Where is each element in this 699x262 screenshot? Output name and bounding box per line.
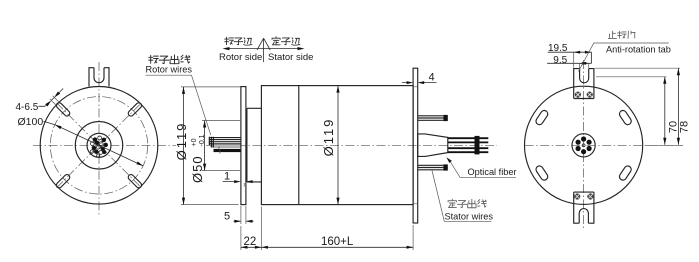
right view bottom tab	[574, 192, 594, 223]
dim 160+L: extension line right	[412, 225, 414, 250]
svg-text:5: 5	[224, 211, 230, 223]
svg-text:4-6.5: 4-6.5	[16, 102, 39, 113]
dim Ø100 arrows	[55, 125, 62, 130]
dim 78 line	[677, 68, 679, 145]
dim 4-6.5 arrows	[45, 100, 51, 106]
svg-text:Ø50: Ø50	[190, 155, 205, 183]
right view slot 146deg	[535, 109, 549, 126]
right flange plate	[413, 68, 418, 223]
bottom tab screws	[574, 193, 593, 199]
dim 160+L: line	[261, 246, 413, 248]
svg-text:78: 78	[679, 121, 691, 133]
dim 19.5 arrows	[574, 51, 581, 54]
left view center lines	[33, 62, 176, 216]
dim 4-6.5 leader	[39, 89, 64, 107]
svg-text:4: 4	[429, 72, 435, 84]
dim Ø119 left: line	[183, 87, 185, 205]
middle center line	[206, 144, 497, 146]
dim Ø119 left: extension lines	[181, 87, 241, 205]
dim 22: line	[241, 246, 262, 248]
stator top rod end cap	[443, 115, 447, 121]
left view slot 315deg	[127, 173, 143, 189]
body inner vertical line	[298, 86, 300, 205]
label 转子出线	[149, 55, 190, 64]
svg-text:9.5: 9.5	[553, 55, 567, 66]
dim 9.5 line	[547, 52, 591, 63]
left view outer circle Ø119	[40, 87, 158, 205]
svg-text:22: 22	[244, 236, 257, 248]
svg-text:Anti-rotation tab: Anti-rotation tab	[606, 45, 671, 55]
top tab U-slot	[580, 69, 589, 83]
label 止转片	[608, 31, 635, 38]
rotor wires bundle	[210, 138, 241, 144]
label 转子边	[225, 37, 252, 45]
right view outer circle	[525, 86, 643, 204]
dim 22: extension lines	[241, 207, 262, 251]
right view slot 326deg	[618, 165, 632, 182]
dim 5: arrows	[234, 220, 254, 222]
svg-text:Stator wires: Stator wires	[445, 212, 494, 222]
svg-text:Ø119: Ø119	[321, 118, 336, 157]
bottom tab U-slot	[579, 209, 588, 224]
left view tab U-slot	[94, 68, 104, 83]
stator side arrow (right)	[264, 48, 302, 50]
svg-text:Rotor side: Rotor side	[219, 52, 262, 63]
right view connector circle	[572, 134, 595, 157]
dim 70/78 extension lines	[595, 68, 683, 145]
stator bottom rod	[418, 165, 444, 170]
left view slot 225deg	[55, 173, 71, 189]
divider vertical with up arrow	[263, 39, 265, 62]
left flange plate	[241, 87, 246, 205]
left view top tab	[89, 68, 109, 87]
svg-text:160+L: 160+L	[321, 236, 354, 248]
optical fiber connector	[418, 134, 448, 157]
stator wires leader	[432, 171, 492, 222]
dim 4-6.5 slot side extensions	[50, 96, 59, 105]
connector pins	[576, 136, 592, 154]
dim 1: lines and arrows	[223, 181, 253, 183]
rotor hub	[247, 108, 262, 182]
right view center lines	[525, 60, 683, 228]
stator bottom rod end cap	[443, 164, 447, 170]
rotor wires thick black wire	[214, 149, 241, 152]
rotor wires gray band	[212, 144, 241, 147]
svg-text:Ø100: Ø100	[18, 116, 44, 128]
stator top rod	[418, 116, 444, 121]
svg-text:Ø119: Ø119	[174, 122, 189, 161]
svg-text:Stator side: Stator side	[268, 52, 313, 63]
dim 5: extension lines	[241, 206, 246, 224]
right flange disc edges	[413, 87, 418, 204]
dim Ø50: line	[204, 121, 206, 171]
left view diagonal center lines	[57, 103, 142, 188]
left view bolt circle Ø100 (dash-dot)	[50, 97, 147, 194]
wire break squiggle	[219, 147, 220, 154]
label 定子出线	[448, 199, 486, 208]
label 定子边	[272, 37, 300, 45]
dim Ø119 body: line	[337, 86, 339, 204]
left view boss circle	[75, 122, 122, 169]
svg-text:Rotor wires: Rotor wires	[146, 65, 193, 75]
right view slot 33deg	[618, 109, 632, 126]
fiber lines	[448, 138, 489, 152]
left view slot 135deg	[55, 102, 71, 118]
rotor wires end ticks	[209, 137, 213, 148]
main body	[261, 86, 413, 205]
svg-text:+0: +0	[191, 138, 198, 146]
dim 19.5 line	[548, 51, 592, 53]
rotor side arrow (left)	[225, 48, 264, 50]
dim 70 line	[664, 77, 666, 145]
right view top tab	[574, 69, 594, 99]
left view wire cluster	[90, 136, 107, 157]
svg-text:Optical fiber: Optical fiber	[468, 167, 517, 177]
right view slot 213deg	[535, 165, 549, 182]
dim Ø100 leader + diameter line	[44, 121, 144, 166]
left view wire-bundle circle	[87, 133, 111, 157]
label Optical fiber leader	[450, 161, 517, 178]
svg-text:1: 1	[224, 171, 230, 183]
dim extension verticals at tab	[574, 52, 592, 68]
anti-rotation tab leader	[578, 43, 668, 72]
svg-text:-0.1: -0.1	[199, 134, 206, 146]
dim 9.5 arrows	[580, 62, 587, 65]
dim Ø50: extension lines	[202, 121, 240, 171]
left view slot 45deg	[127, 102, 143, 118]
rotor wires leader	[146, 75, 211, 135]
fiber splice marks	[475, 136, 480, 155]
dim 4: line	[402, 82, 437, 84]
top tab screws	[575, 92, 593, 98]
